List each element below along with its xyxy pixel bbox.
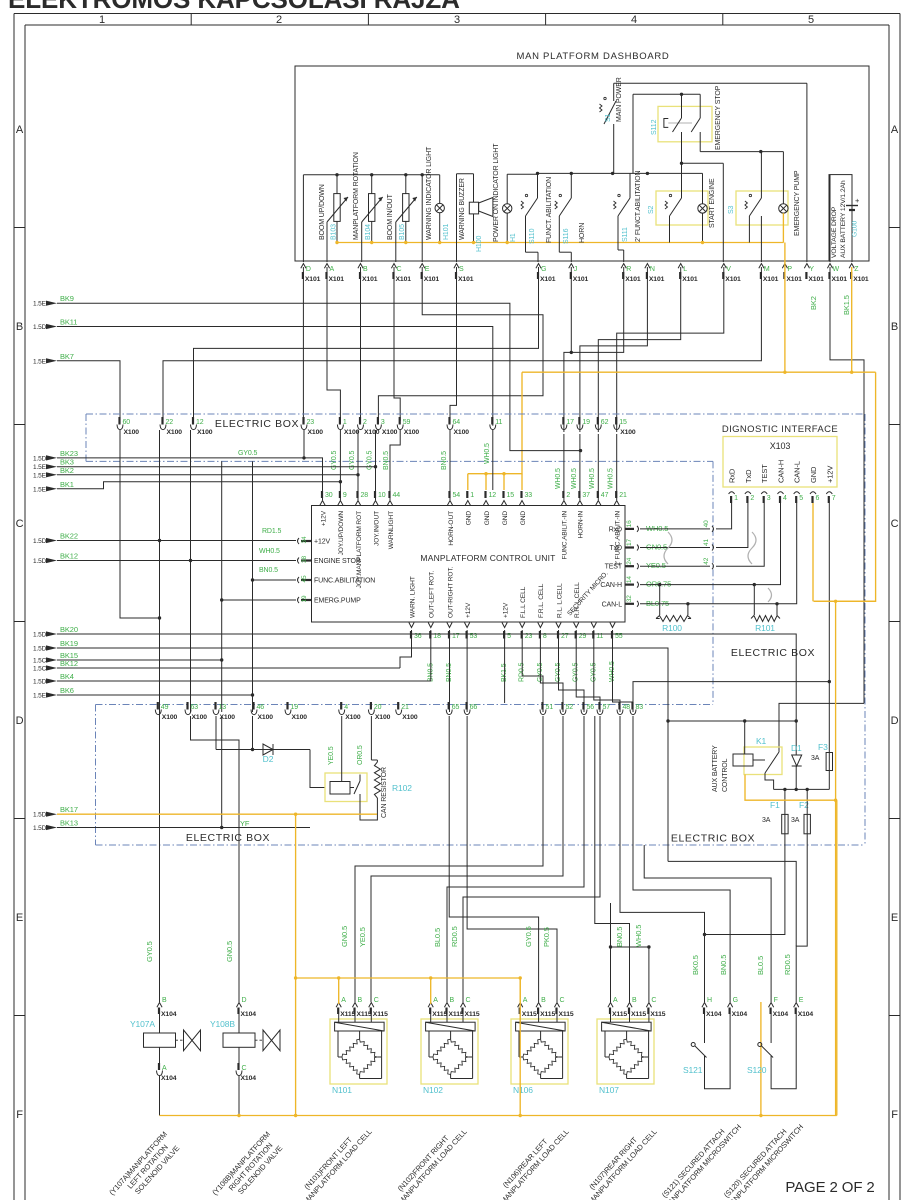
svg-text:FUNC.ABILITATION: FUNC.ABILITATION [314,578,375,585]
svg-text:X101: X101 [396,276,412,283]
svg-text:ELEKTROMOS KAPCSOLASI RAJZA: ELEKTROMOS KAPCSOLASI RAJZA [8,0,460,14]
microswitch S121 [704,1014,706,1044]
svg-text:WH0.5: WH0.5 [608,468,615,489]
wire X100-22 down / BK22 riser / Y107A feed [159,430,161,1002]
svg-text:X101: X101 [540,276,556,283]
svg-text:X100: X100 [402,714,418,721]
dashboard box [295,66,869,261]
svg-text:F: F [774,997,778,1004]
svg-text:H1: H1 [510,233,517,242]
svg-text:66: 66 [470,704,478,711]
svg-text:X104: X104 [732,1011,748,1018]
svg-text:AUX BATTERY 12V/1.2Ah: AUX BATTERY 12V/1.2Ah [840,180,847,258]
svg-text:S110: S110 [529,228,536,244]
svg-text:1.5E: 1.5E [33,472,47,479]
svg-text:X104: X104 [161,1011,177,1018]
wire pin W battery [829,175,831,262]
svg-text:Y: Y [809,266,814,273]
wire to N107-B [595,716,630,1002]
svg-text:MANPLATFORM ROTATION: MANPLATFORM ROTATION [353,152,360,240]
svg-text:14: 14 [626,576,633,583]
wire M to X100-22 [163,267,761,421]
svg-text:BOOM UP/DOWN: BOOM UP/DOWN [319,184,326,240]
svg-text:R101: R101 [755,623,775,633]
svg-text:9: 9 [343,492,347,499]
dashboard top bus wire [303,174,439,176]
svg-text:N106: N106 [513,1085,533,1095]
svg-text:GND: GND [809,466,818,483]
wire X100-11 stub [492,430,494,490]
svg-text:S111: S111 [622,227,629,242]
svg-text:R100: R100 [662,623,682,633]
svg-text:A: A [613,997,618,1004]
svg-text:X104: X104 [241,1075,257,1082]
svg-text:P: P [787,266,792,273]
orange right vertical [835,601,837,1115]
svg-text:JOY.UP/DOWN: JOY.UP/DOWN [338,511,345,556]
svg-text:BN0.5: BN0.5 [615,927,624,947]
svg-text:42: 42 [703,557,710,564]
svg-text:12: 12 [196,419,204,426]
wire CU23 to X100-51 [522,630,543,712]
svg-text:62: 62 [601,419,609,426]
wire X100-1 to CU-9 [339,430,341,500]
dashboard mid bus wire [538,172,703,174]
svg-text:64: 64 [453,419,461,426]
svg-text:DIGNOSTIC INTERFACE: DIGNOSTIC INTERFACE [722,424,838,435]
svg-text:54: 54 [453,492,461,499]
diode D2 [216,749,310,751]
svg-text:51: 51 [546,704,554,711]
relay K1 switch [778,748,780,752]
dashboard yellow bus wire [337,242,784,244]
svg-text:+12V: +12V [320,510,327,526]
load cell N106 [511,1019,568,1084]
svg-text:63: 63 [191,704,199,711]
wire X100-17 to CU-2 [563,434,565,500]
intermediate pins 40 41 42 [700,528,710,530]
svg-text:19: 19 [301,595,308,602]
svg-text:S116: S116 [563,228,570,244]
svg-text:11: 11 [495,419,502,426]
svg-text:RxD: RxD [609,526,622,533]
svg-text:4: 4 [344,704,348,711]
svg-text:10: 10 [378,492,386,499]
resistor R102 [376,760,378,762]
svg-text:YE0.5: YE0.5 [358,927,367,947]
wire to N107-A and C [610,903,612,1002]
svg-text:H: H [707,997,712,1004]
svg-text:38: 38 [301,556,308,563]
svg-text:BL0.5: BL0.5 [756,956,765,975]
wire X100-64 to CU-54 [449,430,451,500]
svg-text:YF: YF [240,819,250,828]
wire Y107A to bus [159,1076,161,1116]
connector X104 lower pins A C [157,1071,163,1076]
svg-text:G: G [541,266,546,273]
control unit left pins [298,538,300,544]
svg-text:X115: X115 [465,1011,480,1018]
svg-text:N101: N101 [332,1085,352,1095]
svg-text:EMERGENCY PUMP: EMERGENCY PUMP [794,170,801,236]
svg-text:X101: X101 [305,276,321,283]
svg-text:S120: S120 [747,1065,767,1075]
emergency pump switch S3 and lamp [736,191,788,225]
svg-text:VOLTAGE DROP: VOLTAGE DROP [831,206,838,258]
svg-text:1.5C: 1.5C [33,666,47,673]
svg-text:X100: X100 [404,429,420,436]
solenoid valve Y108B [223,1033,255,1047]
svg-text:BK22: BK22 [60,532,78,541]
wire X100-57 to N102-C [463,716,600,1002]
microswitch S120 [770,1014,772,1044]
svg-text:BK13: BK13 [60,819,78,828]
svg-text:48: 48 [623,704,631,711]
svg-text:MAIN POWER: MAIN POWER [616,77,623,122]
svg-text:HORN: HORN [579,223,586,243]
load cell N101 [330,1019,387,1084]
wire pin D drop [302,175,304,262]
wire pin4 to relay [341,716,343,782]
svg-text:WH0.5: WH0.5 [571,468,578,489]
diode D1 [795,721,797,755]
svg-text:BK2: BK2 [60,466,74,475]
svg-text:BK12: BK12 [60,659,78,668]
svg-text:S121: S121 [683,1065,703,1075]
svg-text:BK4: BK4 [60,672,74,681]
svg-text:B: B [358,997,363,1004]
inner frame [25,24,889,26]
svg-text:X100: X100 [192,714,208,721]
svg-text:+12V: +12V [465,602,472,618]
wire X100-60 down [120,430,160,618]
svg-text:GND: GND [520,511,527,526]
wire X100-23 down [303,430,305,458]
svg-text:X101: X101 [763,276,779,283]
wire L to X100-62 [598,267,680,432]
svg-text:X101: X101 [725,276,741,283]
svg-text:E: E [891,912,898,924]
svg-text:GND: GND [466,511,473,526]
orange cell supply line [296,977,521,979]
svg-text:5: 5 [799,495,803,502]
svg-text:83: 83 [636,704,644,711]
wire X100-83 to S120 feed [633,716,730,1002]
svg-text:+12V: +12V [825,466,834,483]
svg-text:44: 44 [393,492,401,499]
svg-text:MAN PLATFORM DASHBOARD: MAN PLATFORM DASHBOARD [517,51,670,62]
svg-text:C: C [374,997,379,1004]
load cell N102 [421,1019,478,1084]
svg-text:WH0.5: WH0.5 [634,925,643,947]
svg-text:+12V: +12V [502,602,509,618]
svg-text:X100: X100 [167,429,183,436]
svg-text:X101: X101 [329,276,345,283]
potentiometer B104 [369,194,375,222]
svg-text:17: 17 [566,419,574,426]
wire R to X100-17 [564,267,624,432]
svg-text:1.5D: 1.5D [33,679,47,686]
svg-text:2' FUNCT.ABILITATION: 2' FUNCT.ABILITATION [635,171,642,242]
wire pin63 to Y108B [191,716,240,1002]
svg-text:X100: X100 [620,429,636,436]
wire S112 feed [632,94,634,173]
orange ground bus y=372 [522,371,876,373]
svg-text:X100: X100 [308,429,324,436]
svg-text:59: 59 [403,419,411,426]
svg-text:ELECTRIC BOX: ELECTRIC BOX [671,833,755,845]
wire right riser to K1 [779,703,864,748]
svg-text:PAGE 2 OF 2: PAGE 2 OF 2 [785,1179,874,1196]
svg-text:1.5E: 1.5E [33,358,47,365]
orange riser at S120 [760,1002,762,1116]
svg-text:X100: X100 [344,429,360,436]
wire S to X100-64 [450,267,457,421]
wire CU-19 feed [222,461,296,600]
svg-text:J: J [574,266,577,273]
connector X100 upper row [117,425,123,430]
svg-text:F: F [891,1109,898,1121]
svg-text:F1: F1 [770,800,780,810]
svg-text:X115: X115 [522,1011,537,1018]
wire X100-48 to S121 [620,716,705,1002]
svg-text:JOY.IN/OUT: JOY.IN/OUT [373,511,380,546]
svg-text:H100: H100 [476,236,483,252]
svg-text:B103: B103 [331,224,338,240]
control unit box U1 [312,506,626,623]
resistor R100 [659,585,661,615]
svg-text:1.5D: 1.5D [33,558,47,565]
svg-text:3A: 3A [811,755,820,762]
wire X100-52 to N101-C [371,716,563,1002]
svg-text:X100: X100 [197,429,213,436]
svg-text:A: A [523,997,528,1004]
svg-text:N: N [650,266,655,273]
wire X100-3 to CU-10 [375,430,377,500]
wire pin13 down to BK13 [221,716,223,828]
svg-text:41: 41 [703,539,710,546]
svg-text:BN0.5: BN0.5 [441,451,448,470]
svg-text:BK23: BK23 [60,449,78,458]
svg-text:RD1.5: RD1.5 [262,528,281,535]
svg-text:65: 65 [452,704,460,711]
svg-text:BK20: BK20 [60,625,78,634]
svg-text:D: D [242,997,247,1004]
svg-text:3A: 3A [762,817,771,824]
svg-text:HORN-OUT: HORN-OUT [448,511,455,546]
svg-text:56: 56 [587,704,595,711]
svg-text:60: 60 [123,419,131,426]
svg-text:X115: X115 [631,1011,646,1018]
svg-text:4: 4 [783,495,787,502]
svg-text:X115: X115 [340,1011,355,1018]
wire TxD [640,547,700,549]
svg-text:D2: D2 [263,754,274,764]
svg-text:1.5E: 1.5E [33,693,47,700]
svg-text:4: 4 [631,14,637,26]
svg-text:X104: X104 [798,1011,814,1018]
wire X100-2 to CU-28 [357,430,359,500]
svg-text:19: 19 [582,419,590,426]
svg-text:OUT-LEFT ROT.: OUT-LEFT ROT. [429,571,436,618]
svg-text:B: B [16,321,23,333]
svg-text:X103: X103 [770,441,791,451]
svg-text:X100: X100 [382,429,398,436]
svg-text:B: B [632,997,637,1004]
svg-text:TEST: TEST [760,464,769,483]
svg-text:21: 21 [401,704,409,711]
svg-text:X100: X100 [124,429,140,436]
outer frame [14,13,900,15]
wire S112 to emergency pump branch [700,151,783,153]
svg-text:13: 13 [219,704,227,711]
svg-text:45: 45 [301,575,308,582]
svg-text:BK12: BK12 [60,552,78,561]
svg-text:CAN-L: CAN-L [793,461,802,483]
svg-text:F3: F3 [818,742,828,752]
svg-text:57: 57 [603,704,611,711]
svg-text:X101: X101 [649,276,665,283]
svg-text:BL0.5: BL0.5 [433,928,442,947]
potentiometer B103 [334,194,340,222]
svg-text:X101: X101 [786,276,802,283]
svg-text:1.5E: 1.5E [33,464,47,471]
relay K1 coil [733,754,753,766]
orange drop to GND tie [468,372,522,474]
wire X100-51 to N101-B [355,716,543,1002]
svg-text:1.5D: 1.5D [33,455,47,462]
svg-text:E: E [16,912,23,924]
svg-text:S3: S3 [728,205,735,214]
wire J drop [570,267,572,352]
svg-text:1.5D: 1.5D [33,812,47,819]
svg-text:HORN-IN: HORN-IN [578,511,585,539]
svg-text:2: 2 [566,492,570,499]
svg-text:BK7: BK7 [60,352,74,361]
svg-text:X115: X115 [540,1011,555,1018]
svg-text:2' FUNC.ABILIT.-IN: 2' FUNC.ABILIT.-IN [615,511,622,566]
wire C to X100-59 [394,267,400,421]
wire A to X100-1 [327,267,340,421]
svg-text:1.5D: 1.5D [33,538,47,545]
svg-text:A: A [891,124,899,136]
battery G100 [846,205,858,207]
svg-text:WH0.5: WH0.5 [259,548,280,555]
svg-text:B104: B104 [365,224,372,240]
svg-text:START ENGINE: START ENGINE [709,178,716,228]
twist marks grey [664,532,672,564]
svg-text:V: V [726,266,731,273]
svg-text:1.5E: 1.5E [33,486,47,493]
svg-text:X101: X101 [808,276,824,283]
svg-text:1: 1 [734,495,738,502]
column ticks and numbers [190,14,192,26]
svg-text:X101: X101 [853,276,869,283]
svg-text:C: C [560,997,565,1004]
svg-text:32: 32 [626,595,633,602]
svg-text:17: 17 [626,539,633,546]
svg-text:15: 15 [507,492,515,499]
svg-text:1.5C: 1.5C [33,658,47,665]
wire pin13 riser [221,600,223,712]
svg-text:X100: X100 [162,714,178,721]
voltage drop aux battery box [829,175,852,261]
wire pin46 down to D2 [252,716,254,750]
svg-text:1: 1 [99,14,105,26]
wire CAN-L [640,503,797,604]
wire X100-15 to CU-21 [616,434,618,500]
svg-text:F.R.L. CELL: F.R.L. CELL [538,583,545,618]
switch S1 main power [613,83,615,101]
svg-text:A: A [341,997,346,1004]
svg-text:C: C [466,997,471,1004]
svg-text:M: M [764,266,770,273]
switch S116 horn [570,173,572,198]
svg-text:B105: B105 [399,224,406,240]
wire pin E vertical [421,175,423,262]
svg-text:CONTROL: CONTROL [722,758,729,792]
svg-text:X115: X115 [357,1011,372,1018]
wire S1 top to pin Y [614,82,807,84]
svg-text:WARNLIGHT: WARNLIGHT [388,511,395,549]
resistor R101 [753,585,755,615]
svg-text:GY0.5: GY0.5 [524,926,533,947]
svg-text:CAN-H: CAN-H [777,460,786,483]
wire CU29 to X100-57 [576,630,600,712]
svg-text:WARNING BUZZER: WARNING BUZZER [459,178,466,240]
wire X100-65 to N106-B [449,716,538,1002]
svg-text:H101: H101 [443,224,450,240]
orange drop to bottom bus [519,978,521,1116]
relay R102 coil [330,782,350,795]
svg-text:1.5D: 1.5D [33,632,47,639]
wire TEST [640,565,700,567]
svg-text:BK1.5: BK1.5 [842,295,851,315]
svg-text:15: 15 [619,419,627,426]
wire RxD [640,528,700,530]
svg-text:B: B [541,997,546,1004]
svg-text:1.5E: 1.5E [33,301,47,308]
svg-text:D: D [891,715,899,727]
potentiometer B105 [403,194,409,222]
connector X101 pins [301,264,306,269]
wire E route [378,267,543,421]
svg-text:MANPLATFORM CONTROL UNIT: MANPLATFORM CONTROL UNIT [420,553,555,563]
svg-text:TxD: TxD [610,545,623,552]
svg-text:X115: X115 [373,1011,388,1018]
svg-text:K1: K1 [756,736,767,746]
svg-text:GN0.5: GN0.5 [340,926,349,947]
svg-text:C: C [397,266,402,273]
svg-text:FUNC.ABILIT.-IN: FUNC.ABILIT.-IN [562,511,569,560]
control unit top pins [320,501,325,506]
svg-text:BK1: BK1 [60,480,74,489]
wire CU-45 feed [253,461,297,580]
svg-text:CAN RESISTOR: CAN RESISTOR [381,767,388,818]
orange y=601 link [814,600,876,602]
svg-text:16: 16 [626,520,633,527]
svg-text:BK17: BK17 [60,805,78,814]
svg-text:GND: GND [484,511,491,526]
wire to X104-F [644,845,771,1002]
svg-text:1: 1 [470,492,474,499]
svg-text:WH0.5: WH0.5 [555,468,562,489]
svg-text:1.5D: 1.5D [33,825,47,832]
svg-text:3A: 3A [791,817,800,824]
svg-text:X101: X101 [625,276,641,283]
wire X100-12 down / BK12 riser [190,430,192,712]
svg-text:GN0.5: GN0.5 [225,941,234,962]
